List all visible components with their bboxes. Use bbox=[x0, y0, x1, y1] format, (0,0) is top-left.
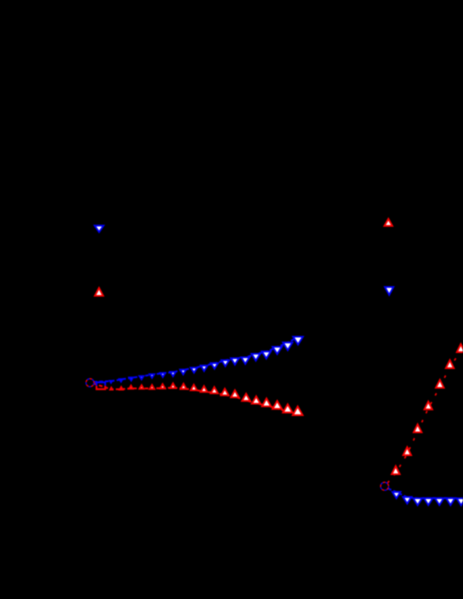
wire : dashed blue line, upper-polariton branch left panel bbox=[94, 337, 299, 382]
blue triangle-down markers, right panel bbox=[392, 492, 463, 505]
wire : dashed red line, steep branch right panel bbox=[388, 351, 461, 483]
legend marker : blue triangle-down, right panel legend bbox=[385, 287, 394, 295]
node : dashed open circle (blue/red) at right anticrossing point bbox=[381, 482, 389, 490]
red triangle-up markers, right panel bbox=[392, 344, 463, 474]
legend marker : red triangle-up, right panel legend bbox=[384, 219, 392, 226]
legend marker : red triangle-up, left panel legend bbox=[95, 288, 103, 296]
legend marker : blue triangle-down, left panel legend bbox=[95, 226, 104, 232]
wire : dashed blue line, flat branch right panel bbox=[388, 489, 463, 499]
wire : dashed red line, lower-polariton branch left panel bbox=[94, 384, 298, 415]
blue triangle-down markers, left panel bbox=[110, 337, 303, 383]
node : half-blue half-red open square marker, first left data point bbox=[97, 382, 106, 389]
red triangle-up markers, left panel bbox=[110, 383, 303, 415]
node : dashed open circle (blue/red) at left anticrossing point bbox=[86, 379, 94, 387]
